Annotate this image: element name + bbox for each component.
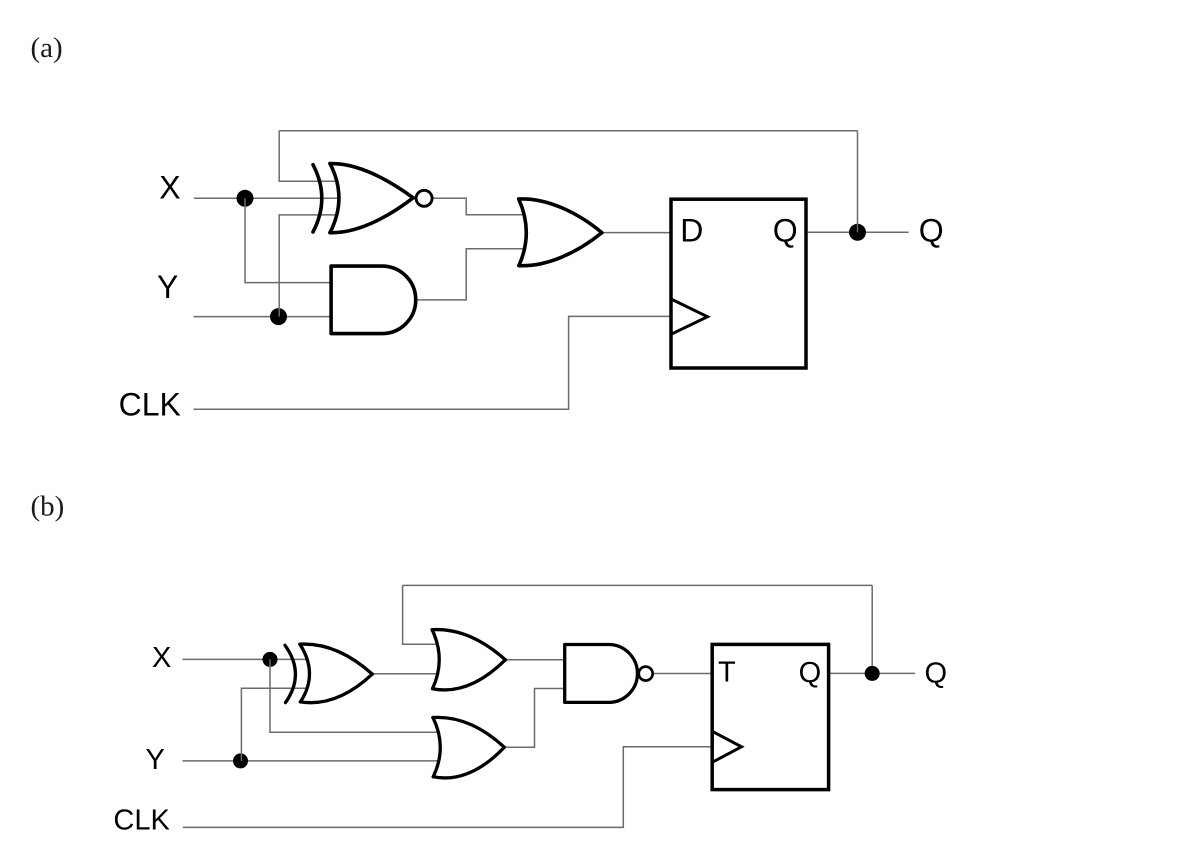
wire X lead (a) (194, 197, 339, 199)
AND gate (a): inputs X, Y (331, 266, 416, 334)
wire feedback down to top OR top input (b) (403, 585, 438, 644)
svg-text:CLK: CLK (119, 387, 181, 423)
wire X lead (b) (182, 658, 307, 660)
junction dot on Q output (a) (849, 224, 866, 241)
wire feedback riser from Q (a) (857, 131, 859, 233)
svg-text:CLK: CLK (113, 804, 170, 836)
wire Q output (a) (806, 231, 909, 233)
wire AND output to OR bottom input (a) (416, 249, 525, 300)
T flip-flop box (b) (712, 644, 828, 789)
wire NAND output to T input (b) (654, 672, 712, 674)
junction dot on Y line (b) (233, 753, 248, 768)
bottom OR gate (b): inputs X, Y (433, 717, 504, 778)
wire X branch to AND gate (a) (245, 198, 332, 282)
wire bottom OR output to NAND bottom input (b) (504, 689, 564, 748)
svg-text:Y: Y (145, 744, 164, 776)
svg-text:X: X (159, 170, 180, 206)
svg-text:D: D (680, 212, 703, 248)
wire X branch to bottom OR top input (b) (270, 659, 438, 732)
wire feedback down to XNOR top input (a) (279, 131, 337, 182)
junction dot on X line (b) (263, 652, 278, 667)
wire OR output to D input (a) (602, 232, 671, 234)
wire Y branch to XOR bottom input (b) (241, 688, 306, 761)
wire feedback top (b) (403, 584, 873, 586)
wire Y lead (a) (194, 316, 333, 318)
svg-text:Y: Y (157, 269, 178, 305)
clock triangle of T flip-flop (b) (712, 731, 741, 762)
wire feedback top (a) (279, 130, 857, 132)
svg-text:Q: Q (919, 213, 944, 249)
svg-text:Q: Q (773, 212, 798, 248)
wire XOR output to top OR bottom input (b) (372, 673, 437, 675)
wire CLK to flip-flop clock (a) (194, 316, 672, 409)
svg-text:T: T (718, 656, 736, 688)
svg-text:Q: Q (925, 657, 948, 689)
wire top OR output to NAND top input (b) (505, 659, 564, 661)
junction dot on X line (a) (237, 190, 254, 207)
wire CLK to flip-flop clock (b) (183, 747, 712, 828)
wire XNOR output to OR top input (a) (433, 198, 524, 214)
clock triangle of D flip-flop (a) (671, 299, 708, 334)
OR gate (a) (519, 199, 602, 266)
svg-text:Q: Q (799, 657, 822, 689)
wire Y lead (b) (183, 760, 439, 762)
wire feedback riser from Q (b) (871, 585, 873, 673)
svg-text:(b): (b) (31, 490, 65, 522)
D flip-flop box (a) (671, 199, 806, 368)
top OR gate (b): inputs Q-feedback, XOR output (432, 630, 505, 690)
wire Y branch to XNOR bottom input (a) (279, 215, 337, 317)
XOR gate (b): inputs X, Y (285, 644, 372, 703)
XNOR gate (a): inputs Q-feedback, X, Y (313, 164, 432, 233)
NAND gate (b) with output bubble (565, 645, 653, 703)
junction dot on Q output (b) (865, 666, 880, 681)
wire Q output (b) (829, 672, 916, 674)
svg-text:X: X (152, 642, 171, 674)
svg-text:(a): (a) (31, 32, 63, 64)
junction dot on Y line (a) (270, 308, 287, 325)
